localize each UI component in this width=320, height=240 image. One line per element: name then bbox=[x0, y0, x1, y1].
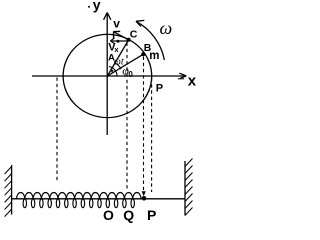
svg-text:Q: Q bbox=[123, 207, 134, 223]
svg-text:ω: ω bbox=[160, 18, 173, 38]
svg-text:m: m bbox=[149, 50, 159, 62]
svg-text:x: x bbox=[114, 45, 119, 54]
svg-text:C: C bbox=[130, 28, 138, 40]
svg-text:y: y bbox=[93, 0, 101, 13]
svg-text:0: 0 bbox=[128, 70, 133, 79]
svg-text:O: O bbox=[103, 207, 114, 223]
svg-text:v: v bbox=[113, 17, 120, 31]
svg-text:P: P bbox=[156, 82, 163, 94]
svg-text:P: P bbox=[147, 207, 156, 223]
svg-text:x: x bbox=[188, 72, 197, 89]
